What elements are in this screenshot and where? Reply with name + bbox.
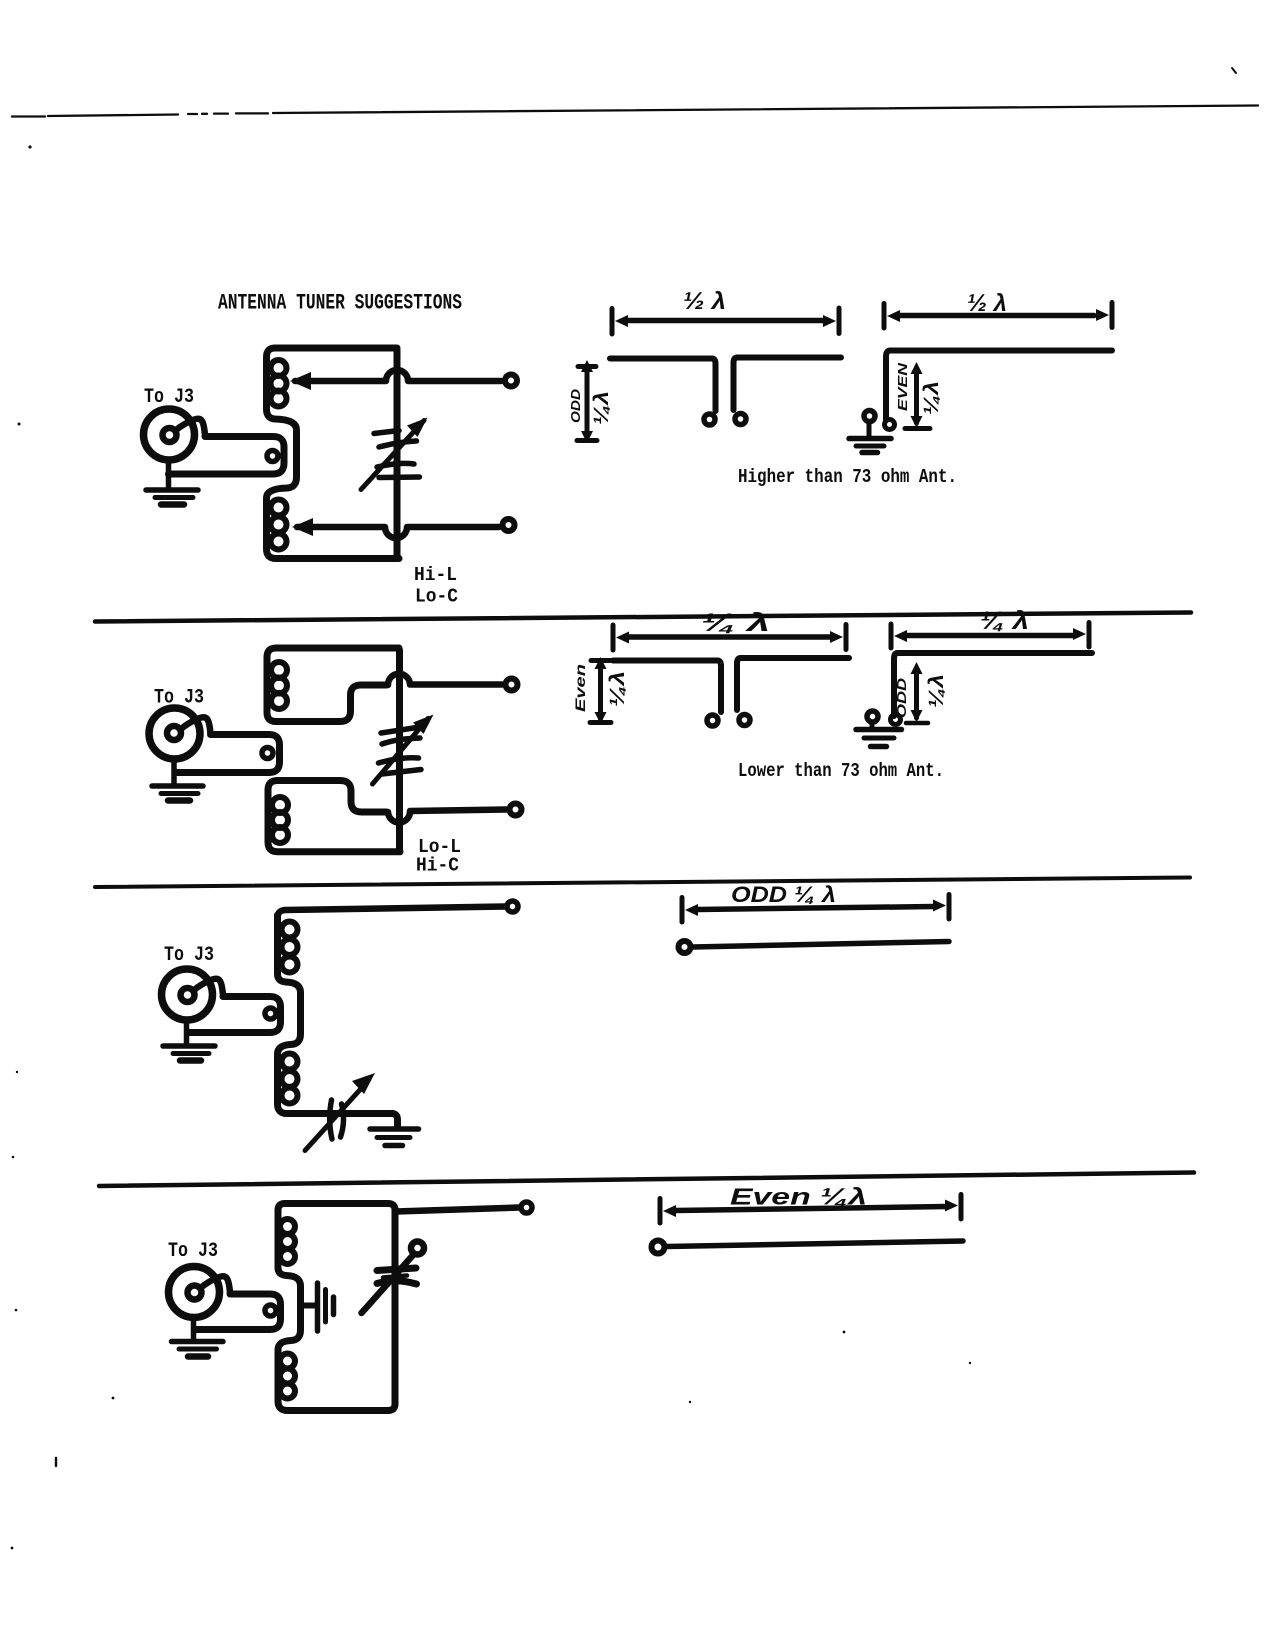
vertical dimension Even quarter-wave (row 2 left) xyxy=(590,657,611,724)
dimension arrow right xyxy=(945,1200,958,1212)
dimension arrow left xyxy=(887,310,900,322)
inductor L1 body (row 1) xyxy=(267,348,400,559)
ground (row 4 connector) xyxy=(172,1342,224,1357)
inductor L2 bottom section (row 2) xyxy=(268,781,400,852)
dimension half-wave left (row 1): end bar xyxy=(610,309,615,335)
vertical dimension EVEN quarter-wave (row 1 right) xyxy=(905,362,930,429)
link end curl (row 1) xyxy=(267,451,278,462)
vertical dimension ODD quarter-wave (row 2 right) xyxy=(906,662,928,723)
dimension line xyxy=(676,1207,946,1211)
coax connector J3 (row 4) xyxy=(169,1267,231,1318)
dimension quarter-wave left (row 2): end bar xyxy=(611,625,616,650)
feed terminal (row 4) xyxy=(652,1241,665,1254)
inductor L1 body (row 4) xyxy=(278,1204,395,1411)
svg-text:To J3: To J3 xyxy=(168,1240,218,1263)
ground lead (row 4 connector) xyxy=(191,1318,197,1341)
bottom output wire with crossover hop (row 2) xyxy=(386,810,506,823)
speck top right xyxy=(1232,68,1236,73)
svg-text:Lower than 73 ohm Ant.: Lower than 73 ohm Ant. xyxy=(738,760,944,782)
end bar right xyxy=(1087,623,1092,648)
output terminal bottom (row 2) xyxy=(510,804,522,816)
dimension line xyxy=(629,634,831,640)
dimension quarter-wave right (row 2): end bar xyxy=(889,624,894,648)
output terminal top (row 2) xyxy=(506,679,518,691)
sideways ground (row 4 center tap) xyxy=(318,1283,334,1331)
L1 top turns (row 2) xyxy=(271,662,287,709)
output terminal (row 3) xyxy=(507,901,518,912)
dipole antenna wires (row 2 left) xyxy=(613,661,721,713)
link end curl (row 4) xyxy=(265,1305,276,1316)
svg-text:¼λ: ¼λ xyxy=(926,674,948,708)
dimension ODD quarter-wave (row 3): end bar xyxy=(680,898,685,923)
ground (row 3 connector) xyxy=(163,1046,215,1061)
svg-text:Even: Even xyxy=(572,664,588,712)
feed terminal (row 2 right) xyxy=(867,711,878,722)
svg-text:¼ λ: ¼ λ xyxy=(701,609,770,637)
ground lead (row 3 connector) xyxy=(184,1020,190,1044)
dimension arrow right xyxy=(933,900,946,912)
svg-text:¼ λ: ¼ λ xyxy=(980,607,1029,635)
dimension line xyxy=(698,907,934,910)
end bar right xyxy=(1110,303,1115,328)
dimension arrow right xyxy=(830,631,843,643)
dimension arrow left xyxy=(616,632,629,644)
feed terminal 2 (row 2 right) xyxy=(891,715,901,725)
coax link loop wires (row 3) xyxy=(188,997,281,1033)
feed terminal (row 3) xyxy=(679,941,691,953)
end bar right xyxy=(844,625,849,650)
svg-text:½ λ: ½ λ xyxy=(683,288,726,315)
dimension line xyxy=(628,318,824,324)
divider line 2 xyxy=(95,878,1190,888)
variable capacitor C1 (row 4) xyxy=(362,1242,425,1314)
antenna wire (row 3) xyxy=(693,942,949,948)
end bar right xyxy=(837,308,842,334)
dimension arrow left xyxy=(663,1205,676,1217)
top tap wire with crossover hop (row 1) xyxy=(295,370,501,381)
svg-text:ODD: ODD xyxy=(894,677,909,718)
coax connector J3 (row 2) xyxy=(149,708,211,759)
ground lead (row 2 connector) xyxy=(171,759,177,785)
coax link loop wires (row 4) xyxy=(195,1294,281,1330)
dimension line xyxy=(900,313,1094,319)
end-fed antenna wire (row 2 right) xyxy=(894,653,1092,716)
dipole antenna wires (row 1 left) xyxy=(610,359,716,412)
dimension arrow right xyxy=(823,315,836,327)
top output wire with crossover hop (row 2) xyxy=(386,674,502,685)
vertical dimension ODD quarter-wave (row 1 left) xyxy=(577,360,597,443)
coax connector J3 (row 1) xyxy=(144,409,206,460)
svg-text:¼λ: ¼λ xyxy=(921,381,943,415)
svg-text:ODD ¼ λ: ODD ¼ λ xyxy=(731,882,836,907)
dimension arrow left xyxy=(615,315,628,327)
svg-text:Hi-L: Hi-L xyxy=(414,564,457,586)
coax link loop wires (row 2) xyxy=(175,735,280,773)
variable capacitor C1 (row 1) xyxy=(361,418,428,490)
output terminal top (row 1) xyxy=(505,375,517,387)
dimension Even quarter-wave (row 4): end bar xyxy=(658,1199,663,1224)
svg-text:Hi-C: Hi-C xyxy=(416,855,459,877)
svg-text:¼λ: ¼λ xyxy=(591,391,613,425)
L2 bottom turns (row 2) xyxy=(272,797,288,843)
speck left margin xyxy=(18,423,21,426)
feed terminal (row 1 right) xyxy=(864,411,875,422)
capacitor branch wire (row 1) xyxy=(394,350,401,556)
top rule line xyxy=(12,106,1258,117)
link end curl (row 2) xyxy=(262,748,273,759)
output terminal (row 4) xyxy=(521,1202,532,1213)
feed terminal right xyxy=(735,414,746,425)
page specks bottom area xyxy=(15,1309,18,1312)
tap arrow bottom (row 1) xyxy=(292,518,313,536)
divider line 3 xyxy=(99,1173,1194,1187)
dimension arrow right xyxy=(1073,628,1086,640)
output wire (row 4) xyxy=(396,1208,519,1212)
svg-text:½ λ: ½ λ xyxy=(967,290,1007,317)
svg-text:EVEN: EVEN xyxy=(895,362,910,411)
dimension line xyxy=(907,633,1074,639)
dimension arrow right xyxy=(1096,309,1109,321)
dimension arrow left xyxy=(685,904,698,916)
link end curl (row 3) xyxy=(265,1008,276,1019)
inductor L1 body (row 3) xyxy=(278,915,398,1127)
speck below rule left xyxy=(28,145,31,148)
coax connector J3 (row 3) xyxy=(162,969,224,1020)
antenna wire to terminal (row 3) xyxy=(278,907,506,919)
dimension arrow left xyxy=(894,630,907,642)
ground (row 3 right) xyxy=(370,1129,419,1146)
center-tap ground lead (row 4) xyxy=(301,1303,315,1309)
ground lead (row 2 right) xyxy=(870,722,875,728)
svg-text:ANTENNA TUNER SUGGESTIONS: ANTENNA TUNER SUGGESTIONS xyxy=(218,291,462,316)
L1 turns (row 4) xyxy=(280,1219,295,1399)
feed terminal left xyxy=(707,715,718,726)
svg-text:Lo-C: Lo-C xyxy=(415,586,458,608)
L1 turns (row 3) xyxy=(282,922,298,1104)
feed terminal 2 (row 1 right) xyxy=(885,420,895,430)
dimension half-wave right (row 1): end bar xyxy=(882,304,887,329)
svg-text:ODD: ODD xyxy=(568,388,583,423)
svg-text:To J3: To J3 xyxy=(164,944,214,967)
L1 turns (row 1) xyxy=(271,360,287,550)
tap arrow top (row 1) xyxy=(290,372,311,390)
svg-text:Higher than 73 ohm Ant.: Higher than 73 ohm Ant. xyxy=(738,466,957,488)
end-fed antenna wire (row 1 right) xyxy=(886,351,1112,421)
feed terminal left xyxy=(704,414,715,425)
end bar right xyxy=(959,1195,964,1220)
antenna wire (row 4) xyxy=(667,1241,963,1247)
ground (row 2 right antenna) xyxy=(856,730,902,747)
ground (row 1 right antenna) xyxy=(849,439,891,453)
output terminal bottom (row 1) xyxy=(503,519,515,531)
bottom tap wire with crossover hop (row 1) xyxy=(297,527,499,538)
coax link loop wires (row 1) xyxy=(169,437,285,475)
variable capacitor C1 (row 2) xyxy=(373,715,434,785)
svg-text:¼λ: ¼λ xyxy=(607,671,629,707)
variable capacitor C1 (row 3) xyxy=(305,1073,375,1151)
ground (row 2 connector) xyxy=(152,786,203,801)
ground lead (row 1 right) xyxy=(867,422,872,437)
feed terminal right xyxy=(739,715,750,726)
inductor L1 top section (row 2) xyxy=(267,648,399,722)
ground (row 1 connector) xyxy=(146,490,198,505)
divider line 1 xyxy=(95,613,1191,622)
end bar right xyxy=(947,895,952,920)
capacitor branch wire (row 2) xyxy=(396,650,403,850)
svg-text:Even ¼λ: Even ¼λ xyxy=(730,1184,867,1210)
ground lead (row 1 connector) xyxy=(166,460,172,489)
